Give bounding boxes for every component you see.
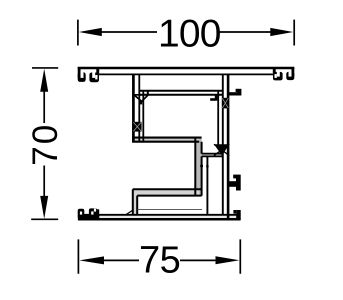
inner horizontal wall lines <box>139 91 223 95</box>
top dimension extension ticks <box>78 20 294 46</box>
left dim arrow down <box>40 196 48 219</box>
bottom dimension line segments <box>103 259 217 261</box>
wall W2 single line <box>206 156 208 214</box>
top dim arrow right <box>270 28 293 36</box>
right wall inner line <box>217 91 219 145</box>
left riser fill <box>133 190 137 216</box>
svg-text:70: 70 <box>26 123 65 166</box>
right wall middle hook <box>229 181 236 187</box>
right wall bottom hook (flange end cap) <box>236 210 241 220</box>
slot wall nubs <box>200 165 203 167</box>
bottom dim arrow left <box>79 256 104 264</box>
thermal break mark X4 step <box>214 144 229 155</box>
gasket channel top-right (shallower) <box>273 67 295 80</box>
thermal break mark X3 right wall <box>222 98 229 109</box>
flange inner thin track line <box>137 209 202 211</box>
top flange outer line <box>78 67 295 69</box>
step wall W1 lines <box>195 138 201 196</box>
step shelf H2 lines <box>202 154 223 157</box>
flange ramp to riser <box>127 210 134 214</box>
bottom dim arrow right <box>216 256 240 264</box>
gasket channel bottom-left (hooks point up) <box>78 208 100 218</box>
shelf H1 lines <box>133 189 202 195</box>
box bottom wall lines <box>132 138 201 142</box>
bottom flange fill <box>99 215 241 220</box>
step wall W1 right lower line <box>201 156 203 195</box>
bottom flange lines <box>78 214 241 216</box>
svg-text:75: 75 <box>139 239 180 281</box>
top dimension line segments <box>101 31 271 33</box>
left riser lines <box>133 189 137 215</box>
svg-text:100: 100 <box>158 12 221 55</box>
right wall mid line <box>222 74 224 215</box>
gasket channel top-left <box>78 67 100 82</box>
top flange underside line <box>99 73 273 75</box>
top dim arrow left <box>79 28 102 36</box>
box bottom wall fill <box>132 138 199 142</box>
inner gasket hook under inner wall <box>215 95 218 101</box>
left dimension ticks <box>31 68 58 219</box>
bottom dimension ticks <box>78 239 240 273</box>
step shelf H2 fill <box>202 154 223 157</box>
step wall W1 fill <box>195 138 201 196</box>
right wall outer bold line <box>227 74 230 219</box>
left dim arrow up <box>40 69 48 92</box>
left wall inner line <box>142 91 144 143</box>
thermal break mark X2 left wall lower <box>133 122 142 132</box>
right wall top hook <box>229 92 239 95</box>
left wall mid line <box>138 74 140 143</box>
shelf H1 fill <box>133 190 199 196</box>
left dimension line segments <box>43 89 45 197</box>
thermal break funnel mark X1 left wall upper <box>134 95 148 102</box>
left wall outer bold line <box>132 74 135 143</box>
